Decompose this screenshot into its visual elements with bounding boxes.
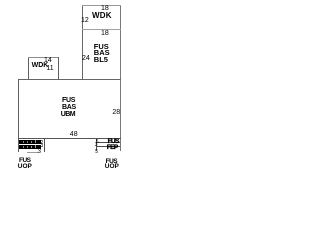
wire: [44, 138, 45, 152]
node FUS main: [62, 97, 75, 104]
node FUS mid: [94, 43, 109, 51]
node 3 left: [40, 144, 43, 149]
node FUS porch right: [108, 139, 119, 146]
node 11: [46, 65, 53, 72]
node 2 left: [40, 141, 43, 146]
node UBM: [61, 111, 75, 118]
wire: [96, 138, 97, 151]
node 24: [82, 55, 90, 62]
node 12: [81, 17, 89, 24]
node 28: [112, 109, 120, 116]
node 3 right: [95, 143, 98, 148]
node FUS-FEP porch left bar1: [19, 140, 41, 144]
node FUS label left: [19, 158, 31, 165]
node WDK top: [92, 12, 112, 20]
wire: [18, 138, 121, 139]
node UOP label right: [105, 164, 119, 171]
wire: [58, 57, 59, 79]
node WDK left: [32, 62, 49, 69]
wire: [82, 29, 121, 30]
node FEP porch right: [107, 145, 118, 152]
wire: [18, 79, 121, 80]
wire: [28, 57, 58, 58]
node 3 below: [38, 149, 41, 155]
wire: [96, 142, 120, 143]
node 14: [44, 57, 52, 64]
wire: [82, 5, 121, 6]
node BAS mid: [94, 49, 110, 57]
node BL5: [94, 56, 108, 64]
node 18 top: [101, 5, 109, 12]
wire: [120, 5, 121, 151]
node 5b right: [95, 150, 98, 155]
node FUS-FEP porch left bar2: [19, 145, 41, 149]
node FUS label right: [106, 159, 118, 166]
wire: [82, 5, 83, 80]
node UOP label left: [18, 164, 32, 171]
node 18 mid: [101, 30, 109, 37]
wire: [28, 57, 29, 79]
wire: [18, 79, 19, 152]
node BAS main: [62, 104, 76, 111]
wire: [96, 146, 120, 147]
node 48: [70, 131, 78, 138]
node 5 right: [96, 140, 99, 145]
wire: [27, 152, 38, 153]
